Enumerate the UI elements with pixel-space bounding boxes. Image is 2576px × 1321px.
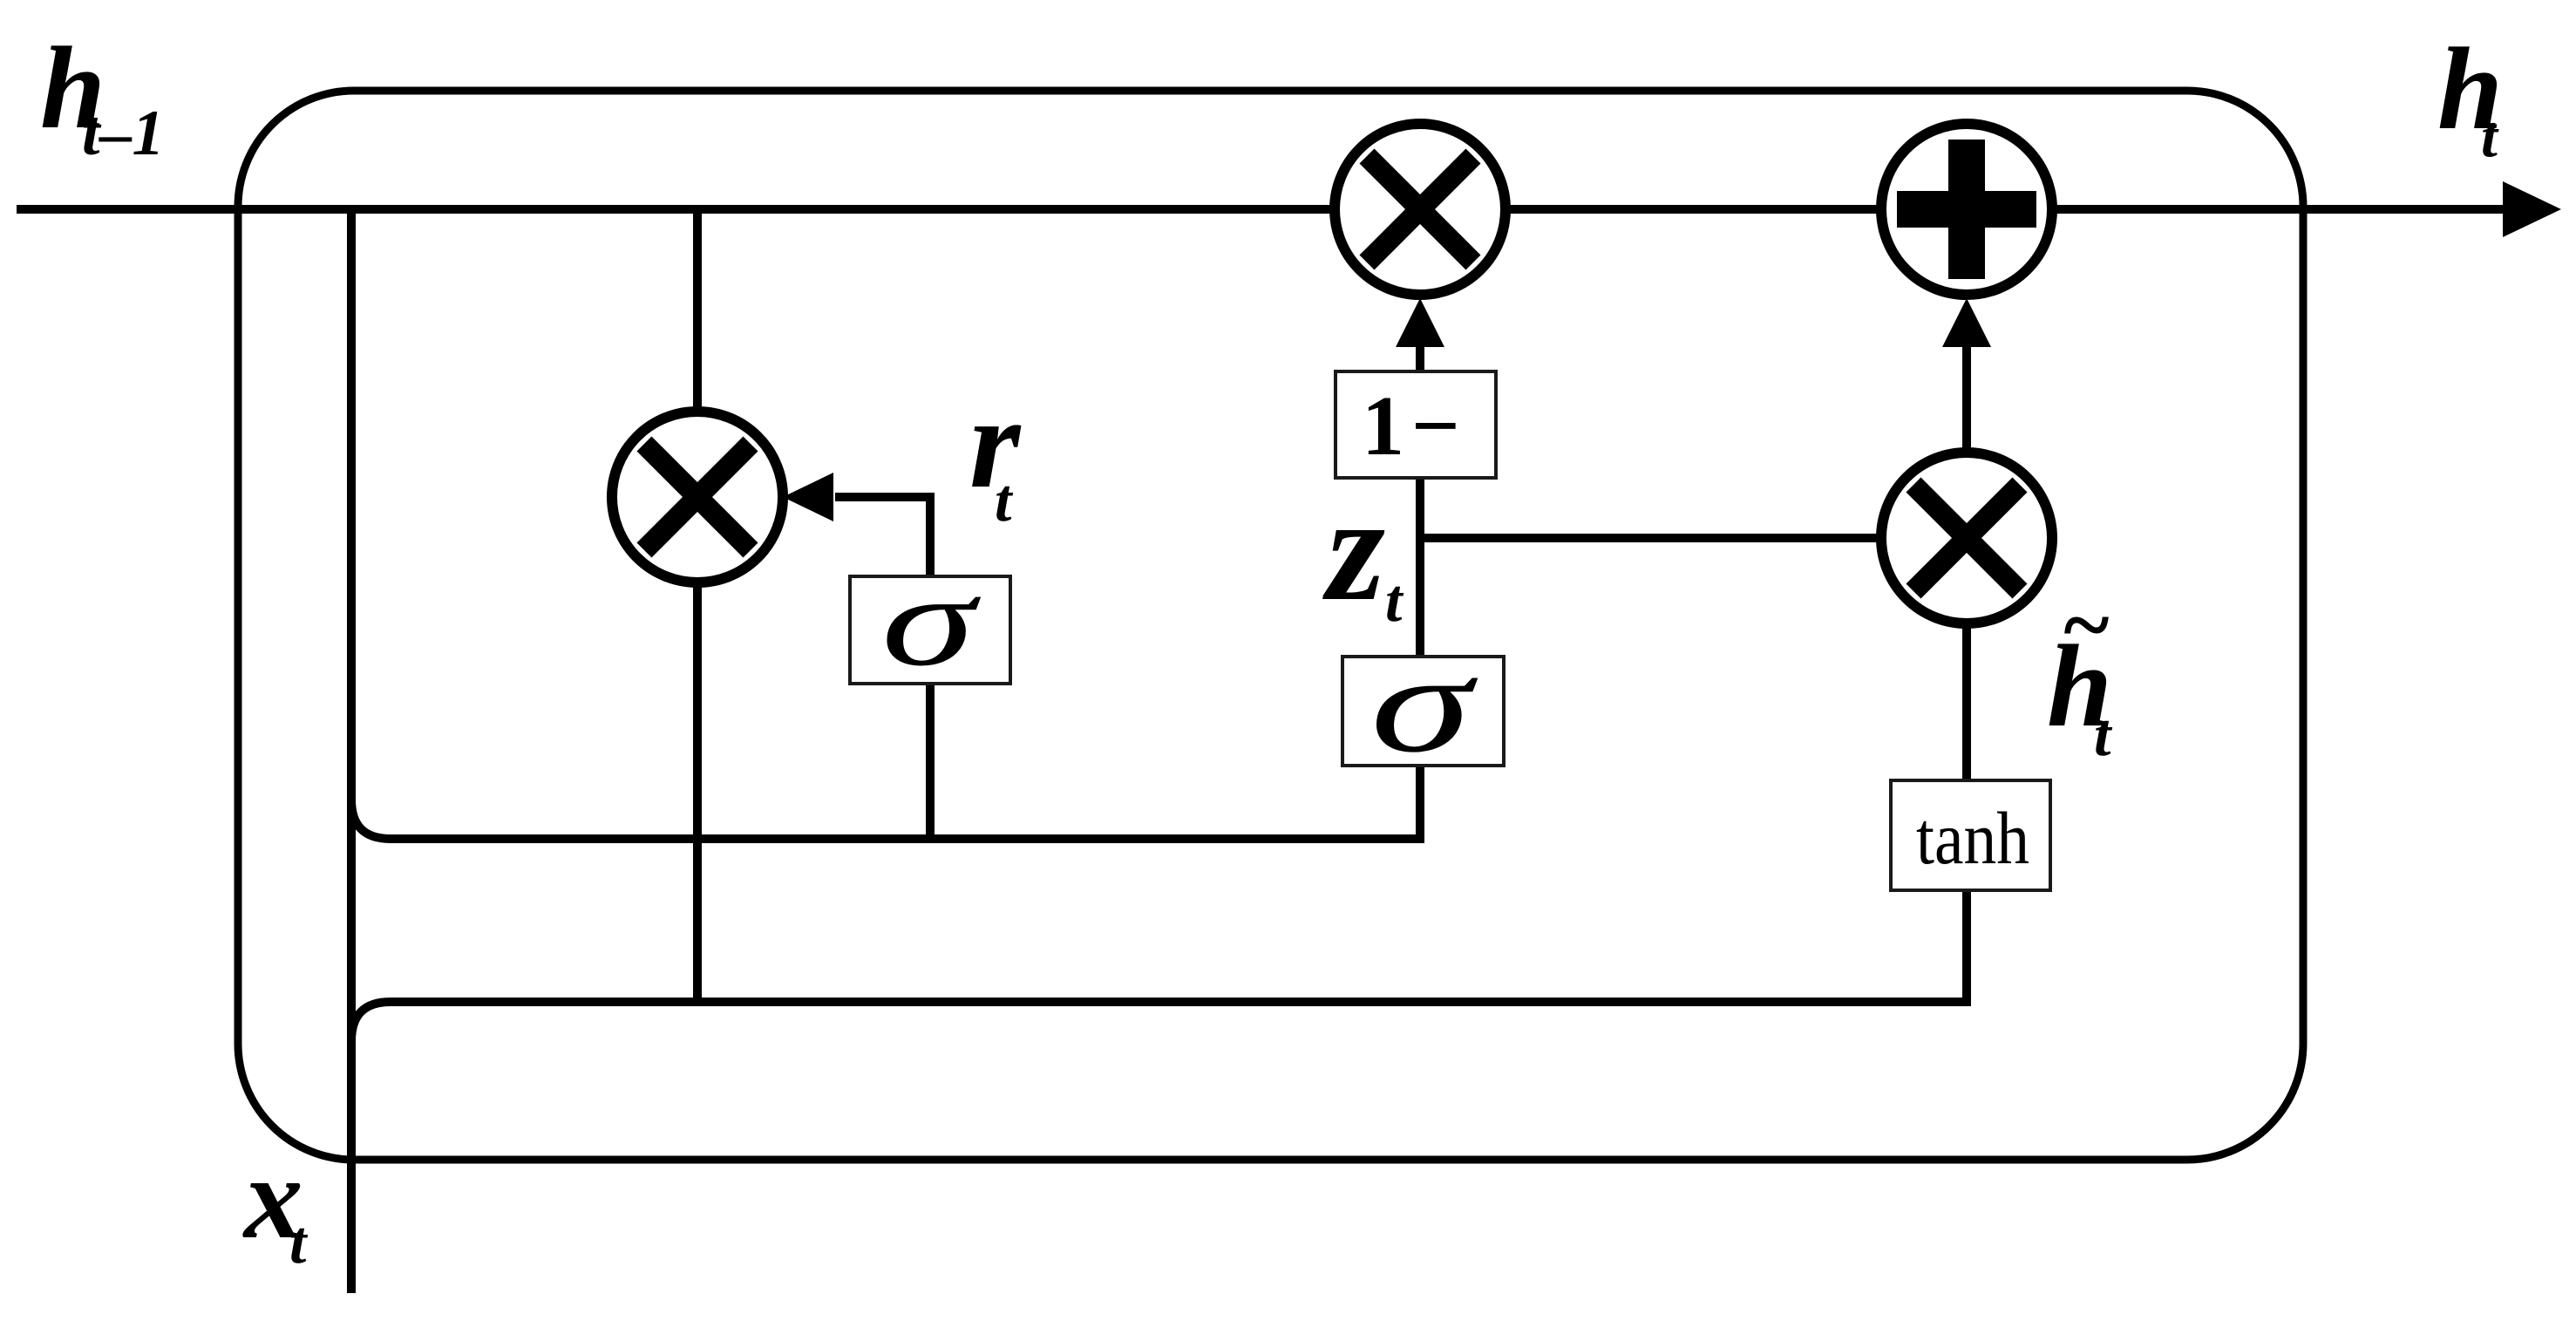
arrowhead: h(t) output at right end of main line [2503, 181, 2561, 237]
svg-text:t: t [2481, 103, 2499, 169]
wire: arrow shaft from 1- box to multiplier U1 [1416, 345, 1424, 371]
svg-text:σ: σ [1370, 624, 1478, 781]
svg-text:−: − [1411, 379, 1460, 473]
node: multiplier U1 on main line [1335, 124, 1505, 295]
svg-text:1: 1 [1362, 379, 1404, 473]
svg-text:t: t [1385, 568, 1404, 635]
label: x(t) input [242, 1134, 309, 1277]
wire: tanh input line to tanh box [391, 890, 1967, 1002]
box: sigma gate (update z) [1342, 624, 1504, 781]
GRU cell boundary rounded rectangle [238, 91, 2303, 1160]
wire: r(t) elbow from sigma(r) box to multiplier U2 [835, 497, 930, 576]
wire: z(t) branch to candidate multiplier U3 [1420, 534, 1967, 542]
wire: branch curve from concat vertical into tanh input line [351, 1002, 391, 1041]
arrowhead: r(t) into multiplier U2 [783, 473, 833, 521]
svg-text:t: t [995, 467, 1014, 535]
label: z(t) [1322, 466, 1404, 635]
box: tanh activation [1891, 780, 2050, 890]
wire: main h(t-1) to h(t) horizontal line [17, 205, 2511, 214]
wire: z column between 1- box and sigma(z) box [1416, 478, 1424, 657]
label: h(t-1) input [40, 24, 165, 169]
box: sigma gate (reset r) [850, 549, 1010, 693]
wire: reset path vertical through multiplier U2 [693, 209, 702, 1002]
arrowhead: into adder U4 from multiplier U3 [1942, 298, 1991, 347]
wire: concat vertical line x(t)/h(t-1) [347, 209, 356, 1293]
label: r(t) [969, 371, 1022, 535]
wire: arrow shaft from multiplier U3 to adder U4 [1962, 345, 1971, 453]
box: 1- (one minus) [1336, 371, 1496, 478]
svg-text:tanh: tanh [1916, 796, 2029, 880]
svg-text:z: z [1322, 466, 1385, 632]
wire: sigma(r) output down to gate input line [926, 684, 935, 839]
node: adder U4 on main line [1881, 124, 2052, 295]
node: multiplier U2 (reset gate apply) [612, 412, 783, 582]
wire: branch curve from concat vertical into gate input line [351, 800, 391, 839]
label: h-tilde(t) candidate [2047, 576, 2113, 769]
wire: gate input line to sigma(z) box [391, 766, 1420, 839]
wire: candidate multiplier U3 down to tanh box [1962, 623, 1971, 780]
label: h(t) output [2437, 24, 2503, 169]
svg-text:t: t [289, 1209, 309, 1277]
svg-text:t–1: t–1 [82, 98, 165, 169]
arrowhead: into multiplier U1 from 1- box [1396, 298, 1444, 347]
svg-text:t: t [2094, 702, 2113, 769]
node: multiplier U3 (candidate apply) [1881, 453, 2052, 623]
svg-text:~: ~ [2061, 576, 2110, 673]
svg-text:σ: σ [881, 549, 982, 693]
